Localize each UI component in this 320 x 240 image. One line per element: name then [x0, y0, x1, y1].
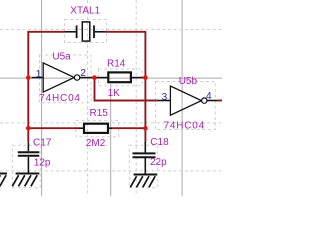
svg-text:2: 2	[80, 68, 86, 79]
junction R14 right / node B	[143, 75, 148, 80]
svg-text:U5b: U5b	[179, 76, 198, 87]
label R15	[90, 108, 109, 119]
junction node B / R15 right	[143, 126, 148, 131]
resistor R15	[79, 124, 112, 133]
svg-text:4: 4	[206, 91, 212, 102]
svg-text:C17: C17	[33, 138, 52, 149]
selection box U5a	[40, 55, 92, 103]
ground (C18)	[130, 175, 157, 188]
svg-text:1K: 1K	[108, 88, 121, 99]
op-amp inverter U5b	[157, 86, 218, 115]
junction node A / R15 left	[26, 126, 31, 131]
label 12p	[34, 158, 51, 169]
wire node B right vertical with top segment	[105, 32, 145, 142]
label R14	[107, 59, 126, 70]
label U5a	[52, 51, 71, 62]
svg-text:R14: R14	[107, 59, 126, 70]
wire R15 right	[111, 127, 145, 129]
label C17	[33, 138, 52, 149]
pin 4 (U5b)	[206, 91, 212, 102]
svg-text:U5a: U5a	[52, 51, 71, 62]
op-amp inverter U5a	[32, 63, 95, 92]
label 74HC04 (U5b)	[164, 120, 206, 131]
label 2M2	[86, 138, 106, 149]
svg-text:74HC04: 74HC04	[164, 120, 206, 131]
label 74HC04 (U5a)	[39, 93, 81, 104]
wire R15 left	[28, 127, 79, 129]
pin 1 (U5a)	[36, 69, 42, 80]
selection box XTAL1	[65, 20, 107, 43]
selection box C17	[12, 145, 40, 188]
svg-text:3: 3	[162, 92, 168, 103]
svg-text:74HC04: 74HC04	[39, 93, 81, 104]
svg-text:1: 1	[36, 69, 42, 80]
svg-text:R15: R15	[90, 108, 109, 119]
label 1K	[108, 88, 121, 99]
pin 2 (U5a)	[80, 68, 86, 79]
junction node A / U5a input	[26, 75, 31, 80]
junction U5a output / R14	[92, 75, 97, 80]
label C18	[150, 137, 169, 148]
wire R14 right short	[141, 77, 146, 79]
wire U5a output to U5b input	[95, 78, 157, 101]
selection box U5b	[156, 82, 216, 130]
crystal XTAL1	[65, 22, 105, 41]
grid lines (sheet)	[0, 0, 222, 196]
capacitor C18	[133, 142, 156, 174]
svg-text:12p: 12p	[34, 158, 51, 169]
label U5b	[179, 76, 198, 87]
wire U5b output	[218, 100, 222, 102]
ground (partial, left edge)	[0, 174, 7, 187]
wire node A left vertical	[28, 32, 65, 143]
svg-text:22p: 22p	[150, 157, 167, 168]
selection box C18	[129, 145, 157, 188]
selection box R14	[98, 69, 142, 86]
ground (C17)	[12, 174, 39, 187]
capacitor C17	[18, 142, 40, 173]
svg-text:XTAL1: XTAL1	[70, 5, 100, 16]
svg-text:C18: C18	[150, 137, 169, 148]
resistor R14	[96, 72, 141, 82]
label XTAL1	[70, 5, 100, 16]
label 22p	[150, 157, 167, 168]
pin 3 (U5b)	[162, 92, 168, 103]
selection box R15	[76, 121, 119, 137]
svg-text:2M2: 2M2	[86, 138, 106, 149]
